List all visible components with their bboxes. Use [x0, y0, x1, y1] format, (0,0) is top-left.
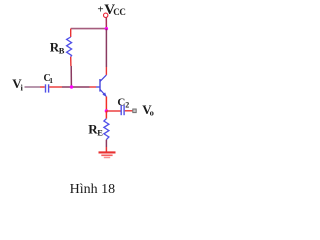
Vcc supply terminal circle [104, 13, 108, 17]
wire base junction segment (mauve) [62, 86, 90, 88]
node base junction dot [70, 85, 73, 88]
transistor Q1 emitter lead [100, 89, 106, 96]
resistor RB [67, 37, 72, 57]
wire RE to ground (mauve) [105, 140, 107, 147]
label RE [88, 122, 103, 138]
transistor Q1 emitter arrow [102, 92, 106, 96]
node emitter junction dot [105, 109, 108, 112]
wire RB bottom stub red [70, 57, 72, 66]
wire RB top stub [70, 29, 72, 37]
output terminal square [133, 109, 136, 113]
wire Vcc terminal to top rail junction [105, 17, 107, 28]
wire Vi to C1 (mauve) [25, 86, 41, 88]
svg-text:1: 1 [49, 76, 53, 85]
ground [99, 152, 116, 157]
svg-text:+: + [97, 4, 103, 16]
wire into C1 left plate [40, 86, 45, 88]
wire C1 to base junction (red) [49, 86, 62, 88]
label C2 [117, 96, 129, 109]
node +Vcc label [97, 2, 125, 18]
wire into transistor base (red) [90, 86, 97, 88]
wire collector to Vcc junction (mauve) [105, 29, 107, 67]
label RB [50, 40, 65, 56]
label Vi [12, 76, 23, 92]
transistor Q1 collector lead [100, 75, 106, 82]
capacitor C2 plates [120, 105, 122, 115]
wire collector red segment [105, 67, 107, 75]
wire top rail horizontal [71, 28, 107, 30]
svg-text:i: i [21, 82, 24, 92]
wire emitter down to output junction [105, 97, 107, 112]
svg-text:o: o [150, 107, 154, 117]
label Vo [142, 102, 154, 118]
label C1 [44, 73, 54, 85]
resistor RE [104, 119, 109, 140]
transistor Q1 base lead (blue) [96, 86, 100, 88]
capacitor C1 plates [45, 84, 47, 92]
transistor Q1 bar [99, 79, 101, 92]
wire RB bottom to base junction [70, 66, 72, 87]
svg-text:E: E [97, 127, 103, 137]
svg-text:B: B [59, 45, 65, 55]
node Vcc junction dot [105, 27, 108, 30]
svg-text:2: 2 [125, 100, 129, 109]
wire C2 to output terminal [125, 110, 133, 112]
svg-text:CC: CC [113, 7, 125, 17]
wire RE to ground (red) [105, 147, 107, 152]
wire emitter junction to RE [105, 111, 107, 119]
svg-text:Hình 18: Hình 18 [70, 182, 116, 197]
wire emitter junction to C2 [106, 110, 120, 112]
